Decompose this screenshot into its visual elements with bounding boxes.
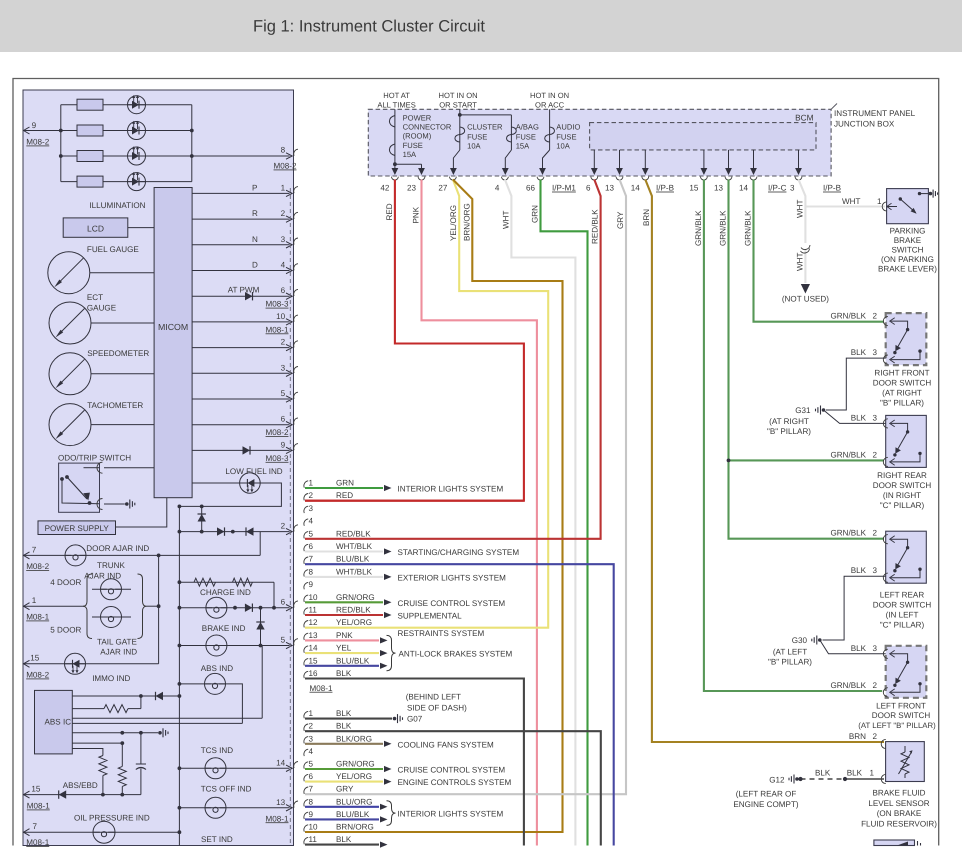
charge resistor 1 (194, 578, 216, 586)
svg-text:WHT/BLK: WHT/BLK (336, 542, 373, 551)
connector M08-1 pin 8 hook (304, 570, 308, 577)
brake bulb row (179, 645, 289, 647)
illumination LED D1 (128, 95, 146, 114)
abs ic row6 wire (72, 742, 122, 744)
svg-text:23: 23 (407, 184, 417, 193)
M08-2 pin8 wire BLU/ORG (305, 806, 379, 808)
svg-text:(ON PARKING: (ON PARKING (881, 255, 934, 264)
svg-text:FUSE: FUSE (556, 132, 576, 141)
connector M08-1 pin 12 hook (304, 621, 308, 628)
connector M08-1 pin 14 hook (304, 646, 308, 653)
svg-text:13: 13 (605, 184, 615, 193)
abs resistor 1 (99, 756, 107, 776)
svg-text:MICOM: MICOM (158, 322, 188, 332)
exit 1 M08-1 wire (23, 605, 85, 607)
wire GRN (541, 180, 588, 846)
LCD box (63, 218, 128, 237)
abs bulb row (179, 684, 242, 724)
svg-text:RESTRAINTS SYSTEM: RESTRAINTS SYSTEM (398, 629, 485, 638)
parking brake ground (929, 192, 933, 196)
odo/trip top wire (104, 467, 154, 469)
bcm pin arrow x=619.5 (619, 150, 621, 174)
svg-text:BLK/ORG: BLK/ORG (336, 734, 372, 743)
svg-text:2: 2 (872, 450, 877, 459)
illumination row 4 wire (61, 181, 192, 183)
brake-charge diode vertical (260, 608, 262, 646)
svg-text:9: 9 (309, 580, 314, 589)
svg-text:HOT AT: HOT AT (383, 91, 410, 100)
svg-text:GRN/ORG: GRN/ORG (336, 760, 375, 769)
svg-text:BLK: BLK (851, 566, 867, 575)
brake ind bulb (206, 635, 227, 656)
fuse box pin cup x=594.3 (591, 177, 598, 180)
svg-text:INSTRUMENT PANEL: INSTRUMENT PANEL (834, 109, 916, 118)
brake fluid level sensor box (886, 742, 925, 782)
abs ic row2 resistor (104, 705, 128, 713)
svg-text:11: 11 (309, 606, 318, 615)
svg-text:2: 2 (281, 522, 286, 531)
connector M08-1 pin 9 hook (304, 582, 308, 589)
svg-text:FUEL GAUGE: FUEL GAUGE (87, 245, 139, 254)
svg-text:M08-1: M08-1 (266, 814, 289, 823)
svg-text:BLK: BLK (851, 348, 867, 357)
diode branch vertical (201, 506, 203, 531)
bcm pin arrow x=728.5 (728, 150, 730, 174)
M08-2 pin1 wire BLK (305, 718, 392, 720)
svg-text:DOOR SWITCH: DOOR SWITCH (873, 379, 932, 388)
svg-text:SUPPLEMENTAL: SUPPLEMENTAL (398, 612, 463, 621)
svg-text:2: 2 (281, 338, 286, 347)
svg-text:(BEHIND LEFT: (BEHIND LEFT (406, 693, 461, 702)
svg-text:OIL PRESSURE IND: OIL PRESSURE IND (74, 814, 150, 823)
fuse box pin cup x=645.3 (642, 177, 649, 180)
svg-text:8: 8 (281, 146, 286, 155)
wire BRN (645, 180, 884, 743)
AT PWM diode (245, 292, 253, 300)
oil pressure row (23, 831, 179, 833)
svg-text:"B" PILLAR): "B" PILLAR) (768, 658, 812, 667)
tcs off ind bulb (205, 797, 226, 818)
abs ic row4 wire (72, 722, 242, 724)
abs ic row2 wire (72, 708, 104, 710)
anti-lock brace (387, 635, 396, 670)
svg-text:M08-1: M08-1 (26, 838, 49, 847)
svg-text:6: 6 (281, 286, 286, 295)
M08-1 pin11 wire RED/BLK (305, 614, 383, 616)
svg-text:DOOR AJAR IND: DOOR AJAR IND (86, 544, 149, 553)
svg-text:ABS IND: ABS IND (201, 664, 234, 673)
MICOM box (154, 188, 192, 498)
svg-text:3: 3 (309, 504, 314, 513)
bcm pin arrow x=594.3 (593, 150, 595, 174)
connector M08-1 pin 15 hook (304, 659, 308, 666)
micom output wire row 10 (192, 424, 289, 426)
svg-text:7: 7 (309, 785, 314, 794)
svg-text:10A: 10A (467, 141, 481, 150)
abs ind bulb (205, 673, 226, 694)
svg-text:PNK: PNK (336, 631, 353, 640)
lr pin3 wire (823, 576, 886, 640)
left brace (83, 574, 92, 639)
charge resistor row (179, 581, 274, 583)
svg-text:YEL/ORG: YEL/ORG (336, 618, 372, 627)
svg-text:"B" PILLAR): "B" PILLAR) (767, 427, 811, 436)
svg-text:M08-2: M08-2 (274, 162, 297, 171)
trunk ajar bulb (101, 579, 122, 600)
svg-text:8: 8 (309, 797, 314, 806)
svg-text:PNK: PNK (412, 206, 421, 223)
tcs ind bulb (205, 758, 226, 779)
bcm pin arrow x=798.5 (798, 150, 800, 174)
svg-text:BLU/BLK: BLU/BLK (336, 656, 370, 665)
brake row riser (261, 646, 263, 719)
svg-text:3: 3 (309, 734, 314, 743)
svg-text:M08-1: M08-1 (310, 684, 333, 693)
panel main bus wire (178, 506, 180, 845)
M08-1 pin15 wire BLU/BLK (305, 665, 379, 667)
svg-text:M08-2: M08-2 (26, 138, 49, 147)
panel exit 9 M08-2 wire (23, 130, 61, 132)
svg-text:LEFT FRONT: LEFT FRONT (876, 702, 926, 711)
svg-text:BRAKE FLUID: BRAKE FLUID (872, 789, 925, 798)
svg-text:6: 6 (281, 415, 286, 424)
svg-text:M08-3: M08-3 (266, 300, 289, 309)
svg-text:(AT LEFT: (AT LEFT (773, 648, 807, 657)
svg-text:4: 4 (281, 261, 286, 270)
svg-text:(LEFT REAR OF: (LEFT REAR OF (736, 790, 797, 799)
svg-text:RED/BLK: RED/BLK (591, 209, 600, 244)
svg-text:6: 6 (281, 598, 286, 607)
svg-text:GRN/BLK: GRN/BLK (830, 312, 866, 321)
svg-text:RED/BLK: RED/BLK (336, 529, 371, 538)
svg-text:Fig 1: Instrument Cluster Circ: Fig 1: Instrument Cluster Circuit (253, 18, 485, 36)
diode on row 9 M08-3 (243, 446, 251, 454)
svg-text:ABS IC: ABS IC (45, 718, 72, 727)
micom output wire row 8 (192, 372, 289, 374)
abs ic ground row (72, 732, 158, 734)
audio fuse (549, 109, 551, 150)
fuse box pin cup x=619.5 (616, 177, 623, 180)
svg-text:4: 4 (495, 184, 500, 193)
micom output wire row 7 (192, 347, 289, 349)
svg-text:15: 15 (31, 785, 41, 794)
svg-text:M08-2: M08-2 (266, 428, 289, 437)
svg-text:"B" PILLAR): "B" PILLAR) (880, 399, 924, 408)
svg-text:"C" PILLAR): "C" PILLAR) (880, 621, 925, 630)
wire YEL/ORG (305, 180, 548, 628)
svg-text:BLU/ORG: BLU/ORG (336, 797, 372, 806)
door ajar bulb (65, 545, 86, 566)
indicator link vertical (158, 555, 160, 663)
svg-text:YEL/ORG: YEL/ORG (449, 205, 458, 241)
svg-text:FUSE: FUSE (467, 132, 487, 141)
svg-text:2: 2 (309, 722, 314, 731)
svg-text:14: 14 (309, 644, 319, 653)
svg-text:ENGINE COMPT): ENGINE COMPT) (733, 800, 799, 809)
svg-text:CRUISE CONTROL SYSTEM: CRUISE CONTROL SYSTEM (398, 766, 506, 775)
micom output wire row 3 (192, 244, 289, 246)
fuse box pin cup x=753.5 (750, 177, 757, 180)
parking brake switch contacts (887, 203, 892, 209)
exit 2 junction dots (178, 530, 182, 534)
fuse box pin cup x=504.9 (502, 177, 509, 180)
connector M08-2 pin 7 hook (304, 787, 308, 794)
svg-text:SPEEDOMETER: SPEEDOMETER (87, 349, 149, 358)
svg-text:SIDE OF DASH): SIDE OF DASH) (407, 703, 467, 712)
svg-text:ILLUMINATION: ILLUMINATION (89, 201, 145, 210)
M08-2 pin6 wire YEL/ORG (305, 781, 383, 783)
tail gate ajar bulb (101, 607, 122, 628)
bcm pin arrow x=753.5 (753, 150, 755, 174)
svg-text:YEL/ORG: YEL/ORG (336, 772, 372, 781)
illumination LED D2 (128, 121, 146, 140)
svg-text:(IN RIGHT: (IN RIGHT (883, 491, 921, 500)
svg-text:5: 5 (309, 529, 314, 538)
wire WHT pin3 (799, 180, 806, 244)
svg-text:BLK: BLK (851, 413, 867, 422)
connector M08-1 pin 6 hook (304, 544, 308, 551)
rf pin3 wire (826, 358, 886, 410)
svg-text:1: 1 (32, 596, 37, 605)
micom output wire row 2 (192, 218, 289, 220)
svg-text:WHT: WHT (795, 253, 804, 271)
illumination row 3 wire (61, 155, 192, 157)
speedometer wire (91, 373, 154, 375)
svg-text:AJAR IND: AJAR IND (100, 648, 137, 657)
connector M08-2 pin 2 hook (304, 724, 308, 731)
svg-text:YEL: YEL (336, 644, 352, 653)
tcs row wire (179, 767, 289, 769)
rr pin3 wire (824, 410, 886, 423)
M08-2 pin3 wire BLK/ORG (305, 743, 383, 745)
connector M08-1 pin 10 hook (304, 595, 308, 602)
partial box at bottom (874, 840, 915, 846)
svg-text:GRY: GRY (616, 211, 625, 229)
svg-text:10: 10 (276, 312, 286, 321)
charge ind bulb (206, 597, 227, 618)
bcm box (590, 123, 816, 150)
svg-text:7: 7 (32, 546, 37, 555)
svg-text:ECT: ECT (87, 293, 103, 302)
svg-text:3: 3 (281, 235, 286, 244)
svg-text:JUNCTION BOX: JUNCTION BOX (834, 119, 895, 128)
svg-text:14: 14 (276, 758, 286, 767)
svg-text:TAIL GATE: TAIL GATE (97, 638, 137, 647)
speedometer gauge (49, 353, 91, 395)
connector M08-1 pin 1 hook (304, 481, 308, 488)
svg-text:10A: 10A (556, 141, 570, 150)
svg-text:"C" PILLAR): "C" PILLAR) (880, 501, 925, 510)
abs ic box (35, 690, 73, 754)
svg-text:3: 3 (281, 363, 286, 372)
charge wrap vertical (273, 582, 275, 608)
exit 2 row wire (179, 531, 289, 533)
svg-text:BRAKE LEVER): BRAKE LEVER) (878, 265, 937, 274)
connector M08-2 pin 5 hook (304, 762, 308, 769)
door ajar row wire (23, 554, 260, 556)
svg-text:EXTERIOR LIGHTS SYSTEM: EXTERIOR LIGHTS SYSTEM (398, 573, 507, 582)
svg-text:D: D (252, 261, 258, 270)
svg-text:GRN/BLK: GRN/BLK (694, 210, 703, 246)
fuel gauge (48, 252, 90, 294)
svg-text:LEVEL SENSOR: LEVEL SENSOR (868, 799, 929, 808)
fuel gauge wire (90, 272, 154, 274)
svg-text:WHT: WHT (501, 211, 510, 229)
svg-text:BLK: BLK (851, 644, 867, 653)
illumination resistor R1 (77, 99, 103, 110)
right front door switch (883, 313, 926, 365)
G30 ground (818, 638, 822, 642)
svg-text:CRUISE CONTROL SYSTEM: CRUISE CONTROL SYSTEM (398, 599, 506, 608)
svg-text:OR START: OR START (439, 101, 477, 110)
immo LED (65, 653, 86, 674)
svg-text:5 DOOR: 5 DOOR (50, 626, 81, 635)
abs capacitor (140, 733, 142, 764)
svg-text:COOLING FANS SYSTEM: COOLING FANS SYSTEM (398, 740, 495, 749)
fuse box pin cup x=394.9 (391, 177, 398, 180)
junction dots low fuel (178, 505, 182, 509)
svg-text:GRN/BLK: GRN/BLK (830, 529, 866, 538)
G07 ground (393, 717, 397, 721)
svg-text:27: 27 (438, 184, 448, 193)
svg-text:LCD: LCD (87, 224, 104, 234)
svg-text:4 DOOR: 4 DOOR (50, 578, 81, 587)
connector M08-1 pin 2 hook (304, 494, 308, 501)
svg-text:BLK: BLK (336, 709, 352, 718)
svg-text:GRN/ORG: GRN/ORG (336, 593, 375, 602)
wire GRN/BLK 15 (704, 180, 882, 692)
svg-text:BLK: BLK (336, 722, 352, 731)
wire RED (305, 180, 524, 501)
M08-1 pin6 wire WHT/BLK (305, 550, 383, 552)
svg-text:1: 1 (281, 183, 286, 192)
svg-text:7: 7 (33, 822, 38, 831)
drop wire to door ajar row (259, 532, 261, 556)
svg-text:OR ACC: OR ACC (535, 101, 565, 110)
svg-text:TCS IND: TCS IND (201, 746, 234, 755)
svg-text:GRN/BLK: GRN/BLK (830, 681, 866, 690)
fuse box pin cup x=703.9 (701, 177, 708, 180)
power connector fuse (394, 109, 396, 164)
svg-text:14: 14 (739, 184, 749, 193)
svg-text:GRN/BLK: GRN/BLK (830, 450, 866, 459)
svg-text:11: 11 (309, 835, 318, 844)
connector M08-2 pin 3 hook (304, 737, 308, 744)
cluster fuse (459, 109, 461, 150)
svg-text:(NOT USED): (NOT USED) (782, 295, 829, 304)
low fuel wire (180, 483, 282, 506)
svg-text:TACHOMETER: TACHOMETER (87, 401, 143, 410)
fuse box pin cup x=452.9 (449, 177, 456, 180)
svg-text:M08-1: M08-1 (266, 325, 289, 334)
svg-text:3: 3 (872, 644, 877, 653)
M08-2 pin9 wire BLU/BLK (305, 818, 379, 820)
svg-text:WHT/BLK: WHT/BLK (336, 567, 373, 576)
micom output wire row 6 (192, 321, 289, 323)
up diode on branch (198, 514, 206, 522)
odo/trip ground (125, 502, 129, 506)
svg-text:(ROOM): (ROOM) (403, 132, 432, 141)
svg-text:2: 2 (872, 529, 877, 538)
svg-text:1: 1 (869, 769, 874, 778)
connector M08-2 pin 1 hook (304, 711, 308, 718)
svg-text:TCS OFF IND: TCS OFF IND (201, 785, 252, 794)
svg-text:ABS/EBD: ABS/EBD (63, 781, 98, 790)
svg-text:GRY: GRY (336, 785, 354, 794)
svg-text:2: 2 (281, 209, 286, 218)
svg-text:TRUNK: TRUNK (97, 561, 125, 570)
svg-text:GRN/BLK: GRN/BLK (744, 210, 753, 246)
tail gate bulb wire (92, 616, 131, 618)
connector M08-1 pin 16 hook (304, 671, 308, 678)
svg-text:N: N (252, 235, 258, 244)
svg-text:13: 13 (309, 631, 319, 640)
svg-text:6: 6 (309, 542, 314, 551)
abs ic row1 diode (156, 692, 164, 700)
svg-text:GRN: GRN (531, 205, 540, 223)
M08-1 pin7 wire BLU/BLK (305, 564, 614, 845)
svg-text:M08-1: M08-1 (27, 802, 50, 811)
svg-text:BLU/BLK: BLU/BLK (336, 810, 370, 819)
connector M08-2 pin 9 hook (304, 812, 308, 819)
svg-text:R: R (252, 209, 258, 218)
fuse box pin cup x=540.5 (537, 177, 544, 180)
power connector split (393, 162, 397, 166)
svg-text:1: 1 (309, 709, 314, 718)
svg-text:DOOR SWITCH: DOOR SWITCH (873, 601, 932, 610)
svg-text:INTERIOR LIGHTS SYSTEM: INTERIOR LIGHTS SYSTEM (398, 485, 504, 494)
power supply box (38, 521, 116, 535)
illumination right bus wire (191, 105, 193, 182)
M08-2 pin11 wire BLK (305, 844, 379, 846)
svg-text:INTERIOR LIGHTS SYSTEM: INTERIOR LIGHTS SYSTEM (398, 810, 504, 819)
svg-text:GRN/BLK: GRN/BLK (719, 210, 728, 246)
svg-text:3: 3 (790, 184, 795, 193)
svg-text:POWER: POWER (403, 114, 432, 123)
svg-text:2: 2 (309, 491, 314, 500)
power supply wire (116, 498, 167, 527)
svg-text:RED/BLK: RED/BLK (336, 606, 371, 615)
svg-text:SWITCH: SWITCH (892, 246, 924, 255)
svg-text:RED: RED (385, 203, 394, 220)
svg-text:I/P-B: I/P-B (656, 184, 674, 193)
svg-text:15: 15 (30, 653, 40, 662)
abs/ebd diode (59, 790, 66, 798)
charge diode (245, 604, 253, 612)
wire WHT (505, 180, 576, 846)
svg-text:42: 42 (380, 184, 390, 193)
connector M08-1 pin 13 hook (304, 633, 308, 640)
svg-text:7: 7 (309, 555, 314, 564)
svg-text:CLUSTER: CLUSTER (467, 123, 503, 132)
wire GRN/BLK 14 (754, 180, 885, 322)
charge bulb row (179, 607, 289, 609)
abs ic row3 wire (72, 717, 262, 719)
svg-text:GRN: GRN (336, 479, 354, 488)
svg-text:RED: RED (336, 491, 353, 500)
svg-text:3: 3 (872, 413, 877, 422)
lf pin3 wire (820, 640, 886, 654)
svg-text:14: 14 (631, 184, 641, 193)
brake fluid sensor resistor (904, 746, 906, 752)
ect gauge wire (91, 322, 154, 324)
M08-1 pin13 wire PNK (305, 639, 379, 641)
svg-text:G12: G12 (769, 776, 785, 785)
svg-text:9: 9 (32, 121, 37, 130)
sensor pin1 wire solid (845, 778, 884, 780)
svg-text:BLK: BLK (336, 835, 352, 844)
svg-text:WHT: WHT (842, 197, 860, 206)
